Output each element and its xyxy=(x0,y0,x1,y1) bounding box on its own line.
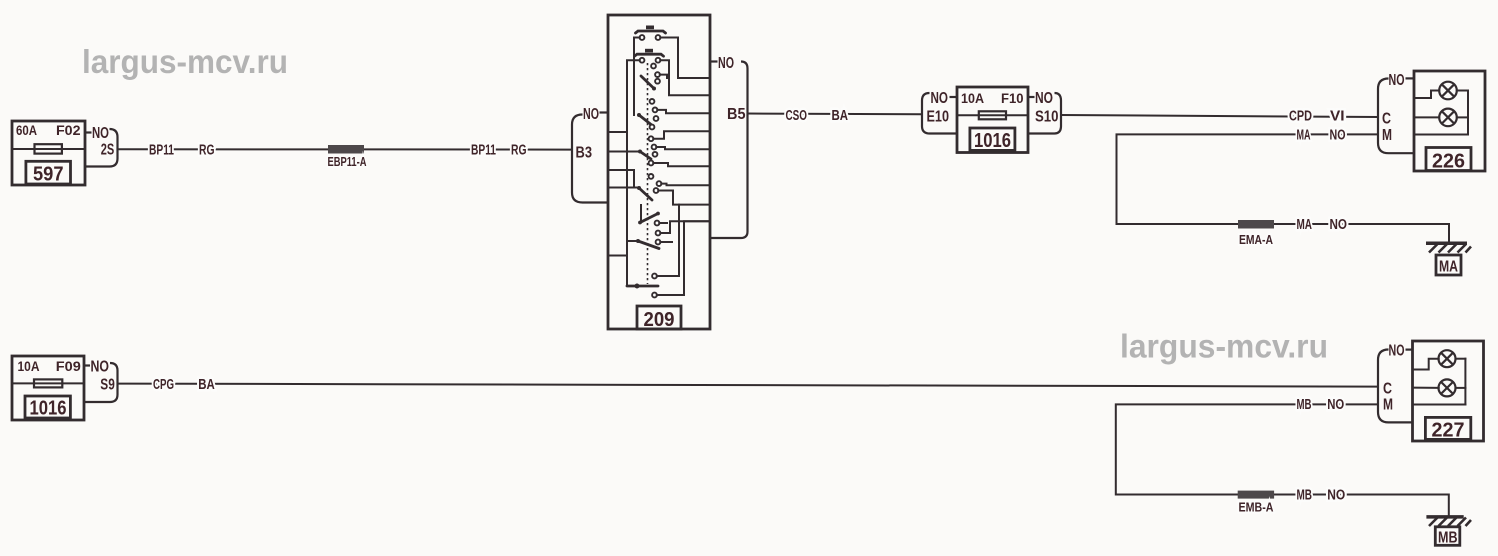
svg-text:C: C xyxy=(1383,381,1392,398)
svg-text:BP11: BP11 xyxy=(471,142,496,158)
contact A xyxy=(651,64,656,69)
svg-text:MB: MB xyxy=(1297,487,1313,503)
lamp unit 227 connector bracket xyxy=(1378,343,1413,423)
lamp L1 lead right xyxy=(1457,90,1468,92)
M line xyxy=(1414,134,1468,136)
lamp L1 lead left xyxy=(1414,91,1439,99)
wire BP11 RG xyxy=(118,148,571,150)
svg-text:C: C xyxy=(1382,111,1391,128)
svg-text:2S: 2S xyxy=(101,142,115,159)
P2 left lead long vertical xyxy=(627,60,640,286)
svg-text:NO: NO xyxy=(718,55,734,72)
right vertical joining lamps xyxy=(1467,91,1469,135)
lamp L2 lead left (C) xyxy=(1414,116,1439,118)
splice EBP11-A xyxy=(328,145,364,154)
P1 right lead xyxy=(660,38,710,79)
contact H + right line y131 xyxy=(649,136,654,141)
node stub left y132 xyxy=(608,131,627,133)
P1 left lead xyxy=(634,38,640,116)
svg-text:S9: S9 xyxy=(100,376,115,393)
svg-text:RG: RG xyxy=(199,142,215,158)
switch arm A3 xyxy=(640,152,651,160)
svg-text:EMA-A: EMA-A xyxy=(1239,233,1273,247)
lamp L2 xyxy=(1439,109,1457,127)
svg-text:60A: 60A xyxy=(16,122,37,138)
lamp L1 lead right xyxy=(1456,358,1466,360)
lamp L1 xyxy=(1439,82,1457,100)
lamp unit 226 connector bracket xyxy=(1378,72,1414,153)
contact E + B5 feed line xyxy=(653,108,658,113)
svg-text:CPD: CPD xyxy=(1289,108,1312,124)
connector B3 bracket xyxy=(572,106,608,203)
fuse box 1016 (10A F10) xyxy=(957,87,1028,153)
svg-text:NO: NO xyxy=(1330,217,1348,233)
svg-text:F09: F09 xyxy=(56,358,81,374)
svg-text:NO: NO xyxy=(91,359,110,376)
svg-text:M: M xyxy=(1382,127,1392,144)
switch arm A5 xyxy=(640,214,658,223)
wire CSO BA xyxy=(748,113,922,116)
connector S9 bracket xyxy=(84,359,118,403)
lamp L2 lead left (C) xyxy=(1413,387,1439,389)
label box 209 xyxy=(637,306,681,329)
svg-text:S10: S10 xyxy=(1035,109,1059,126)
svg-text:CPG: CPG xyxy=(153,377,174,393)
node stub left y255.5 xyxy=(608,255,627,257)
svg-text:226: 226 xyxy=(1432,151,1465,173)
svg-text:F10: F10 xyxy=(1001,90,1024,106)
svg-text:CSO: CSO xyxy=(786,108,808,124)
wire CPD VI xyxy=(1061,115,1378,117)
fuse box 597 (60A F02) xyxy=(12,121,85,186)
switch arm A2 xyxy=(639,115,651,125)
svg-text:227: 227 xyxy=(1432,420,1465,442)
right vertical joining lamps xyxy=(1464,359,1466,405)
contact circles P2 xyxy=(640,58,645,63)
contact B xyxy=(655,72,660,77)
pushbutton cap 1 xyxy=(646,26,654,30)
contact M + right line y185 xyxy=(657,181,662,186)
svg-text:209: 209 xyxy=(644,309,675,331)
node stub left y170 xyxy=(608,170,634,188)
contact F xyxy=(654,116,659,121)
svg-text:B3: B3 xyxy=(576,145,593,162)
label box 597 xyxy=(26,161,71,184)
svg-text:largus-mcv.ru: largus-mcv.ru xyxy=(1120,328,1328,365)
lamp L1 xyxy=(1439,350,1456,367)
P2 right lead xyxy=(660,60,710,95)
splice EMA-A xyxy=(1238,220,1274,229)
contact C xyxy=(655,79,660,84)
M line xyxy=(1413,404,1466,406)
connector E10 bracket xyxy=(922,90,957,134)
svg-text:NO: NO xyxy=(931,90,949,107)
svg-text:VI: VI xyxy=(1330,108,1345,124)
arm A5 feed vertical xyxy=(640,205,642,222)
switch 209 outer box xyxy=(608,15,710,329)
label box 1016 xyxy=(970,128,1015,150)
contact R + right line y221 xyxy=(656,231,661,236)
svg-text:E10: E10 xyxy=(927,109,950,126)
svg-text:MA: MA xyxy=(1297,127,1311,143)
contact D xyxy=(650,99,655,104)
contact Q xyxy=(655,221,660,226)
lamp L2 lead right xyxy=(1457,116,1468,118)
contact T + right line y204.6 xyxy=(652,274,657,279)
contact circles P1 xyxy=(640,35,645,40)
label box 227 xyxy=(1425,417,1470,439)
wire MA NO from M pin xyxy=(1117,134,1450,241)
fuse F02 symbol xyxy=(12,148,85,150)
fuse F09 symbol xyxy=(12,382,84,384)
svg-text:EMB-A: EMB-A xyxy=(1239,501,1274,515)
svg-text:RG: RG xyxy=(511,142,527,158)
mechanical dashed link xyxy=(647,63,649,284)
lamp unit 227 box xyxy=(1413,341,1484,442)
lamp L1 lead left xyxy=(1413,359,1439,370)
label box 1016 xyxy=(25,396,70,418)
svg-text:EBP11-A: EBP11-A xyxy=(328,155,367,169)
ground MB symbol xyxy=(1426,517,1471,547)
bottom switch arm A7 xyxy=(627,285,658,288)
ground MA symbol xyxy=(1426,243,1471,275)
contact I + right line y149 xyxy=(652,145,657,150)
wire CPG BA xyxy=(118,384,1378,387)
svg-text:NO: NO xyxy=(1389,343,1405,360)
svg-text:NO: NO xyxy=(1327,487,1345,503)
lamp L2 xyxy=(1439,379,1456,396)
svg-text:1016: 1016 xyxy=(974,130,1011,152)
svg-text:largus-mcv.ru: largus-mcv.ru xyxy=(82,43,288,80)
contact K + right line y166 xyxy=(649,161,654,166)
svg-text:NO: NO xyxy=(583,106,599,123)
svg-text:597: 597 xyxy=(33,164,64,186)
svg-text:MA: MA xyxy=(1439,259,1458,276)
switch arm A6 xyxy=(638,241,659,249)
svg-text:BA: BA xyxy=(198,377,215,393)
node stub left y187.5 xyxy=(608,187,639,189)
pushbutton cap 2 xyxy=(645,49,653,53)
contact J xyxy=(653,152,658,157)
lamp unit 226 box xyxy=(1414,71,1485,173)
svg-text:B5: B5 xyxy=(727,106,746,123)
fuse box 1016 (10A F09) xyxy=(12,356,84,420)
svg-text:MB: MB xyxy=(1297,397,1312,413)
svg-text:NO: NO xyxy=(1327,397,1344,413)
lamp L2 lead right xyxy=(1456,387,1466,389)
splice EMB-A xyxy=(1238,491,1274,499)
svg-text:1016: 1016 xyxy=(30,398,67,420)
switch arm A1 xyxy=(641,76,654,89)
contact L xyxy=(649,174,654,179)
connector S10 bracket xyxy=(1028,90,1061,134)
connector 2S bracket xyxy=(85,125,118,167)
contact G xyxy=(650,125,655,130)
svg-text:MA: MA xyxy=(1297,217,1313,233)
contact V + right line y221 xyxy=(652,293,657,298)
svg-text:NO: NO xyxy=(92,125,109,142)
pushbutton bar 1 xyxy=(636,31,666,33)
wire MB NO from M pin xyxy=(1116,404,1449,515)
fuse F10 symbol xyxy=(957,114,1028,116)
svg-text:10A: 10A xyxy=(18,358,40,374)
node stub left y151.5 xyxy=(608,151,640,153)
svg-text:MB: MB xyxy=(1438,530,1458,547)
svg-text:NO: NO xyxy=(1389,72,1405,89)
svg-text:BP11: BP11 xyxy=(149,142,174,158)
svg-text:NO: NO xyxy=(1035,90,1053,107)
connector B5 bracket xyxy=(710,55,748,238)
contact S xyxy=(656,240,661,245)
switch arm A4 xyxy=(639,188,652,200)
svg-text:10A: 10A xyxy=(961,90,984,106)
label box 226 xyxy=(1426,148,1471,171)
svg-text:BA: BA xyxy=(832,108,849,124)
pushbutton bar 2 xyxy=(635,54,664,56)
svg-text:F02: F02 xyxy=(56,122,81,138)
contact N + feed to y204.6 line xyxy=(654,188,659,193)
svg-text:NO: NO xyxy=(1330,127,1346,143)
svg-text:M: M xyxy=(1383,397,1393,414)
switch 209 internals xyxy=(608,26,710,298)
